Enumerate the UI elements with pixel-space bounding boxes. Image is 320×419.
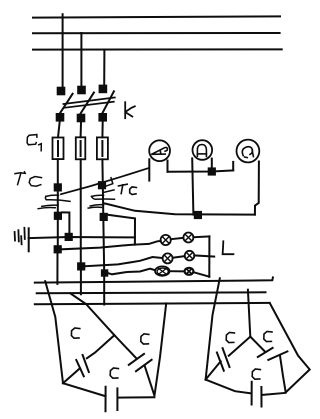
bottom bus line B1 bbox=[35, 277, 273, 282]
lamp 1B bbox=[183, 233, 193, 243]
wire lamp row 3 to bus bbox=[194, 272, 209, 276]
switch K bottom contact 2 bbox=[77, 114, 86, 123]
wire lamp row 2 to bus bbox=[194, 255, 214, 256]
lamp 2B bbox=[185, 251, 195, 261]
left bank capacitor C c (bottom) bbox=[63, 383, 154, 411]
node W1 junction bbox=[208, 167, 216, 175]
wire phase 3 below fuse bbox=[102, 141, 104, 305]
node W2 junction bbox=[194, 211, 202, 219]
wire K2 to fuse 2 bbox=[80, 122, 82, 137]
node: CT1 primary bottom junction bbox=[54, 212, 62, 220]
switch K blade 3 bbox=[101, 91, 114, 115]
label L bbox=[223, 241, 234, 254]
right bank capacitor C d (upper left) bbox=[206, 337, 251, 380]
wire lamp right bus bbox=[208, 236, 210, 276]
label C (right bank bottom) bbox=[252, 369, 260, 379]
switch K bottom contact 3 bbox=[98, 113, 107, 122]
label Tc left bbox=[15, 172, 42, 186]
switch K top contact 3 bbox=[99, 85, 108, 94]
wire between lamps row 3 bbox=[170, 270, 185, 272]
wire W1 ammeter interconnect bbox=[168, 170, 234, 171]
label C (right bank upper right) bbox=[264, 331, 272, 341]
label C (left bank upper right) bbox=[141, 334, 149, 344]
left bank right side to B3 bbox=[155, 303, 167, 395]
wire tap phase 3 bbox=[103, 50, 105, 86]
ammeter A3 right leg bbox=[255, 162, 259, 215]
wire lamp feed 1 bbox=[62, 245, 135, 250]
fuse F1 bbox=[53, 138, 64, 160]
wire lamp feed 3 (row 3 lead) bbox=[108, 269, 155, 275]
bus line L1 bbox=[33, 16, 280, 17]
left bank feeder from B1 (left side) bbox=[45, 281, 63, 383]
node: CT2 primary bottom junction bbox=[100, 213, 108, 221]
lamp 1A bbox=[161, 235, 171, 245]
wire CT1 drop to ground line bbox=[62, 212, 70, 233]
wire between lamps row 2 bbox=[173, 256, 185, 258]
switch K bottom contact 1 bbox=[56, 113, 65, 122]
ammeter A3 left leg bbox=[232, 162, 234, 170]
switch K blade 2 bbox=[79, 93, 94, 117]
bottom bus line B3 bbox=[35, 303, 270, 304]
ammeter A2 right leg bbox=[211, 159, 213, 172]
label C (left bank upper left) bbox=[71, 328, 79, 338]
label Tc right bbox=[119, 184, 137, 194]
switch K linkage bar upper bbox=[63, 98, 114, 105]
wire between lamps row 1 bbox=[171, 238, 184, 239]
ammeter A1 bbox=[149, 140, 170, 161]
ammeter A2 bbox=[193, 140, 213, 160]
CT Tc2 winding bbox=[88, 178, 114, 208]
switch K top contact 1 bbox=[57, 87, 66, 96]
bus line L3 bbox=[33, 48, 282, 50]
fuse F3 bbox=[97, 137, 108, 159]
wire lamp row 1 lead bbox=[135, 241, 161, 245]
wire ground line bbox=[29, 237, 135, 238]
node lamp feed 2 on wire 2 bbox=[77, 262, 85, 270]
wire K3 to fuse 3 bbox=[101, 122, 103, 138]
wire tap phase 1 bbox=[62, 14, 64, 87]
label C1 bbox=[27, 135, 41, 151]
right bank feeder from B2 (middle) bbox=[248, 290, 250, 337]
bus line L2 bbox=[33, 32, 280, 34]
right bank capacitor C e (upper right) bbox=[250, 337, 287, 393]
ammeter A1 left leg bbox=[148, 159, 150, 180]
switch K blade 1 bbox=[59, 94, 73, 115]
node ground line junction bbox=[65, 233, 73, 241]
wire phase 2 below fuse bbox=[80, 141, 82, 294]
node: CT2 primary top junction bbox=[98, 181, 106, 189]
ammeter A3 bbox=[237, 140, 260, 163]
switch K linkage bar lower bbox=[65, 102, 114, 108]
label C (left bank bottom) bbox=[110, 368, 118, 378]
label C (right bank upper left) bbox=[226, 332, 234, 342]
wire lamp feed 2 (row 2 lead) bbox=[85, 257, 162, 266]
left bank capacitor C b (upper right) bbox=[114, 335, 154, 394]
wire phase 1 below fuse bbox=[56, 141, 59, 284]
left bank feeder from B2 (diagonal) bbox=[70, 293, 114, 335]
wire lamp row 1 to bus bbox=[193, 235, 209, 238]
node lamp feed 1 on wire 1 bbox=[54, 245, 62, 253]
ground symbol bbox=[15, 228, 29, 252]
label k bbox=[125, 102, 135, 118]
wire tap phase 2 bbox=[80, 33, 82, 86]
node: CT1 primary top junction bbox=[54, 183, 62, 191]
ammeter A2 left leg bbox=[192, 158, 193, 214]
ammeter A1 right leg bbox=[167, 161, 169, 172]
wire K1 to fuse 1 bbox=[58, 122, 60, 138]
right bank feeder from B1 (left side slant) bbox=[206, 278, 220, 379]
lamp 2A bbox=[163, 253, 173, 263]
wire CT2 drop to lamp row 1 bbox=[108, 215, 135, 245]
left bank capacitor C a (upper left) bbox=[63, 335, 114, 383]
fuse F2 bbox=[76, 137, 86, 159]
lamp 3B bbox=[185, 268, 194, 275]
right bank capacitor C f (bottom) bbox=[206, 380, 286, 407]
bottom bus line B2 bbox=[37, 291, 266, 294]
wire W2 CT2 secondary to ammeter A3 bbox=[105, 204, 255, 215]
node lamp feed 3 on wire 3 bbox=[101, 269, 108, 276]
switch K top contact 2 bbox=[77, 86, 86, 95]
CT Tc1 winding bbox=[38, 195, 70, 209]
wire: CT1 secondary slant to ammeter A1 bbox=[61, 168, 148, 194]
right bank right side from B3 bbox=[270, 303, 310, 392]
lamp 3A bbox=[155, 266, 169, 275]
